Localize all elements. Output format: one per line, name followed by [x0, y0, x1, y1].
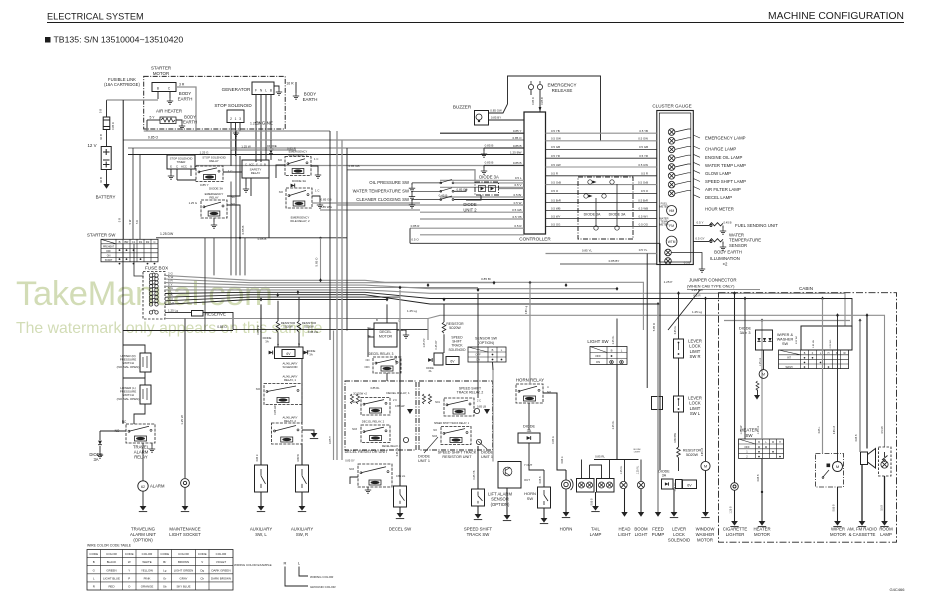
starter switch table	[101, 239, 158, 261]
feed pump wire	[657, 304, 659, 512]
svg-text:10 B: 10 B	[99, 177, 103, 183]
svg-text:OFF: OFF	[744, 445, 750, 449]
wire 0.85O low left	[123, 330, 233, 332]
lift alarm feed	[492, 370, 494, 462]
svg-text:SW R: SW R	[690, 354, 701, 359]
wire 0.5 WB controller to cluster	[546, 210, 657, 212]
svg-text:16 R: 16 R	[286, 82, 294, 86]
starter motor M1	[152, 83, 176, 92]
emergency idle relay 1	[285, 157, 311, 176]
body earth label right	[303, 92, 318, 103]
svg-text:0.85 RL: 0.85 RL	[595, 455, 605, 459]
svg-text:OUT: OUT	[524, 478, 530, 482]
fuse	[149, 291, 158, 295]
wire 0.85 GB across to right	[312, 202, 420, 204]
ground generator	[276, 89, 282, 95]
svg-text:(OPTION): (OPTION)	[133, 537, 153, 542]
joint	[687, 297, 689, 299]
wire 1.25Lg drop	[427, 319, 429, 341]
water temp meter WTM	[666, 236, 677, 247]
svg-text:ACC: ACC	[249, 164, 254, 167]
svg-text:CODE: CODE	[125, 552, 134, 556]
svg-text:1.25 B: 1.25 B	[250, 122, 261, 126]
wire air heater to earth	[176, 120, 182, 123]
wire 0.85 Y to controller	[440, 132, 524, 134]
diode 3A x3 box	[756, 330, 773, 350]
svg-text:MOTOR: MOTOR	[754, 532, 770, 537]
svg-text:0.5 L: 0.5 L	[515, 176, 522, 180]
fuse	[149, 280, 158, 284]
svg-text:COLOR: COLOR	[142, 552, 154, 556]
svg-text:NO: NO	[433, 429, 437, 432]
svg-text:CABIN: CABIN	[799, 286, 813, 291]
cluster lamp	[668, 173, 675, 180]
svg-text:Gr: Gr	[163, 576, 166, 580]
svg-text:0.85 LG: 0.85 LG	[396, 448, 399, 457]
ground body earth right	[293, 93, 299, 99]
svg-text:C: C	[153, 240, 155, 244]
horn sw down	[543, 508, 545, 518]
svg-text:H: H	[779, 441, 781, 444]
wire diode drop	[99, 431, 101, 440]
svg-text:IDLE RELAY, 2: IDLE RELAY, 2	[290, 219, 310, 223]
emergency relay label	[205, 192, 224, 200]
diode x3 c	[768, 338, 771, 341]
buzzer wire right	[489, 119, 525, 121]
drop wire x205	[204, 238, 206, 331]
jumper connector underline	[687, 289, 760, 291]
lever lock solenoid coil	[676, 480, 683, 489]
svg-text:LIGHT: LIGHT	[634, 452, 641, 454]
illumination lamp 2	[665, 258, 672, 265]
example line wiring color	[299, 567, 308, 577]
lamp internal wire	[675, 182, 691, 185]
svg-text:1.25 DW: 1.25 DW	[160, 232, 174, 236]
svg-text:0.5 GY: 0.5 GY	[695, 237, 704, 241]
svg-text:RELAY, 2: RELAY, 2	[284, 419, 296, 423]
emergency release wire down	[539, 90, 541, 112]
head light gnd arrow	[621, 512, 627, 517]
svg-text:NO3: NO3	[349, 468, 355, 471]
cluster gauge inner box	[659, 113, 691, 262]
svg-text:LAMP: LAMP	[590, 532, 602, 537]
fuse box feed	[134, 244, 144, 276]
diode 3A box horn	[518, 433, 540, 443]
decel relay4 left wire	[350, 477, 358, 484]
svg-text:F: F	[255, 89, 257, 93]
room lamp label	[879, 527, 893, 537]
svg-text:SW: SW	[745, 433, 753, 438]
svg-text:CLEANER CLOGGING SW: CLEANER CLOGGING SW	[356, 197, 410, 202]
diode down to horn sw	[529, 443, 544, 470]
svg-text:WINDOW: WINDOW	[696, 527, 716, 532]
wiper washer sw label	[777, 333, 794, 346]
svg-text:1.25 RL: 1.25 RL	[637, 465, 640, 474]
starter sw feeder 1	[132, 148, 134, 239]
svg-text:0.85 G: 0.85 G	[552, 436, 555, 444]
ground horn sw	[540, 518, 548, 524]
tail lamp drop 4	[589, 465, 591, 479]
lift alarm sensor	[498, 462, 521, 489]
decel relay 1	[361, 398, 390, 416]
svg-text:RELAY: RELAY	[209, 159, 218, 163]
switch ground	[409, 194, 415, 200]
switch contact	[412, 179, 454, 183]
tail lamp drop 3	[590, 465, 602, 479]
wire 5.85O vertical	[659, 243, 661, 470]
label leader	[693, 187, 700, 190]
diode arrows	[589, 181, 597, 198]
svg-text:LIGHT GREEN: LIGHT GREEN	[174, 568, 194, 572]
svg-text:TIMER: TIMER	[177, 160, 186, 164]
horn relay to horn wire	[543, 393, 566, 470]
switch ground	[409, 202, 415, 208]
tail lamp down	[595, 492, 597, 506]
ground auxiliary relay 2	[310, 433, 318, 439]
heater sw feed 2	[761, 321, 763, 440]
svg-text:WTM: WTM	[668, 240, 676, 244]
cluster gauge outer box	[657, 111, 694, 265]
svg-text:5.85 O: 5.85 O	[652, 322, 656, 331]
wire safety to idle relay 1	[276, 165, 285, 178]
hour meter HM	[667, 206, 677, 216]
diode 3A label aux right	[307, 349, 316, 356]
wire generator B to earth	[274, 86, 279, 89]
svg-text:0.5 WY: 0.5 WY	[551, 214, 561, 218]
svg-text:EMERGENCY LAMP: EMERGENCY LAMP	[705, 136, 746, 141]
tail lamp L1	[579, 482, 585, 488]
wire 1.25W across	[231, 149, 296, 151]
ground speed shift track sw	[474, 514, 482, 520]
svg-text:0.85 B: 0.85 B	[513, 144, 522, 148]
stop solenoid wire 3 down	[239, 123, 241, 132]
generator wire F down	[255, 95, 257, 163]
ground air heater	[179, 123, 185, 129]
washer pump	[759, 370, 768, 379]
diode box lever lock	[662, 479, 674, 489]
svg-text:6V: 6V	[286, 352, 291, 356]
svg-text:6V: 6V	[687, 484, 692, 488]
wire starter B down	[157, 92, 159, 100]
speed shift track relay upper	[444, 398, 474, 416]
boom light lamp	[637, 481, 644, 488]
svg-text:MOTOR: MOTOR	[830, 532, 846, 537]
resistor lever lock	[677, 447, 681, 458]
radio down	[861, 465, 863, 522]
wire resistor aux L feed	[277, 301, 279, 321]
ground room lamp	[880, 521, 888, 527]
safety relay	[242, 160, 269, 178]
svg-text:0.5 WY: 0.5 WY	[639, 214, 649, 218]
wire starter 3R down	[176, 87, 196, 131]
svg-text:DIODE 3A: DIODE 3A	[479, 175, 499, 180]
feed pump gnd arrow	[655, 512, 661, 517]
decel relay 2	[361, 425, 390, 443]
body earth label starter	[178, 91, 193, 101]
wire 0.5 GrB controller to cluster	[546, 184, 657, 186]
svg-text:0.85 Y: 0.85 Y	[513, 129, 522, 133]
light sw table	[590, 347, 627, 365]
speed shift track solenoid label	[448, 336, 466, 352]
wire fusible link to battery	[106, 130, 108, 147]
diode unit 1 label right	[481, 451, 493, 460]
svg-text:0.5 UW: 0.5 UW	[551, 163, 561, 167]
svg-text:NO1: NO1	[435, 401, 441, 404]
switch contact	[412, 196, 454, 200]
buzzer BZ1	[475, 111, 489, 126]
generator G1	[252, 82, 274, 95]
horn down	[565, 489, 567, 512]
svg-text:B: B	[270, 89, 272, 93]
svg-text:0.85 Y: 0.85 Y	[200, 183, 209, 187]
decel resistor unit enclosure	[345, 381, 416, 450]
screw symbol 2	[474, 408, 479, 413]
speaker symbol	[861, 449, 876, 469]
stop solenoid timer	[167, 155, 195, 169]
assembly wire 2	[616, 184, 618, 226]
svg-text:& CASSETTE: & CASSETTE	[849, 532, 876, 537]
ground cigarette lighter	[730, 521, 738, 527]
svg-text:0.85 B: 0.85 B	[485, 161, 494, 165]
ground emergency relay	[211, 222, 217, 228]
wire distribution bundle	[165, 289, 365, 291]
feed pump label	[652, 527, 665, 537]
switch contact	[412, 188, 454, 192]
svg-text:HOUR METER: HOUR METER	[705, 207, 734, 212]
svg-text:5Ω20W: 5Ω20W	[686, 453, 699, 457]
svg-text:0.5 GW: 0.5 GW	[551, 137, 561, 141]
fuel meter FM	[667, 221, 677, 231]
wire 0.5 GW controller to cluster	[546, 140, 657, 142]
svg-text:0.85 RY: 0.85 RY	[395, 355, 398, 364]
stub	[483, 148, 485, 151]
lamp internal wire	[675, 138, 691, 141]
wire water temp to diode unit	[454, 189, 466, 191]
boom light feed	[640, 460, 642, 482]
lever lock limit sw R contact	[678, 343, 680, 350]
svg-text:DIODE: DIODE	[481, 451, 493, 455]
wire emergency relay down	[227, 205, 240, 238]
lamp internal wire	[675, 190, 691, 193]
travel alarm relay right down	[151, 443, 153, 446]
resistor 5ohm20W ss label	[446, 322, 464, 330]
label leader	[693, 179, 700, 182]
svg-text:EMERGENCY: EMERGENCY	[547, 83, 576, 88]
svg-text:NO3: NO3	[365, 366, 371, 369]
decel sw feed top	[399, 290, 401, 331]
svg-text:2Ω120W ×2: 2Ω120W ×2	[353, 392, 367, 396]
safety relay ACC down	[250, 178, 252, 196]
diode 3A label aux left	[263, 336, 272, 343]
auxiliary relay 1	[264, 384, 302, 405]
tail lamp drop 1	[581, 460, 583, 479]
svg-text:RESISTOR UNIT: RESISTOR UNIT	[442, 455, 472, 459]
wiper motor square	[827, 464, 831, 468]
svg-text:ILLUMINATION: ILLUMINATION	[710, 256, 740, 261]
tail lamp label	[590, 527, 602, 537]
decel relay3 to unit	[386, 373, 388, 381]
svg-text:COLOR: COLOR	[178, 552, 190, 556]
diode 3A x3 label	[739, 327, 751, 336]
svg-text:BODY: BODY	[179, 91, 192, 96]
wire distribution bundle	[165, 300, 387, 305]
diode 3A aux left	[269, 351, 273, 355]
wire ground stub 1	[484, 147, 524, 149]
speed shift track relay 2 label	[457, 387, 484, 395]
svg-text:1.25 RL: 1.25 RL	[612, 335, 615, 344]
illumination lamp 1	[665, 249, 672, 256]
fuse	[149, 302, 158, 306]
svg-text:DIODE 3A: DIODE 3A	[584, 213, 601, 217]
svg-text:EARTH: EARTH	[178, 96, 193, 101]
svg-text:OIL PRESSURE SW: OIL PRESSURE SW	[369, 180, 410, 185]
svg-text:MAINTENANCE: MAINTENANCE	[169, 527, 200, 532]
diode 3A label top	[267, 144, 277, 152]
wire oil pressure to controller	[454, 182, 524, 184]
wire pressure switch feed	[122, 331, 124, 425]
decel unit ground arrow	[407, 409, 413, 414]
wire 0.5 Br to controller	[440, 196, 524, 198]
svg-text:DARK GREEN: DARK GREEN	[211, 568, 230, 572]
wire to reserve	[165, 311, 192, 313]
svg-text:OFF: OFF	[595, 354, 601, 358]
switch ground stub	[411, 191, 413, 193]
svg-text:BLACK: BLACK	[107, 560, 117, 564]
ground stop solenoid timer	[168, 173, 174, 179]
diode 3A top	[269, 150, 273, 154]
decel sw feed lower	[399, 464, 401, 486]
relay cluster drop wire	[239, 238, 241, 275]
svg-text:ROOM: ROOM	[879, 527, 893, 532]
lamp internal wire	[675, 129, 691, 132]
wire distribution bundle	[165, 292, 365, 293]
wire body earth drop right	[295, 82, 297, 93]
svg-text:0.5 GB: 0.5 GB	[551, 145, 560, 149]
svg-text:B: B	[376, 318, 378, 322]
svg-text:FUEL SENDING UNIT: FUEL SENDING UNIT	[735, 223, 778, 228]
diode 3A idle relays	[291, 184, 295, 188]
ground lever lock solenoid	[670, 512, 678, 518]
diode 3A label lever lock	[658, 470, 670, 478]
decel motor left drop	[367, 329, 369, 345]
svg-text:B: B	[611, 349, 613, 353]
svg-text:3 R: 3 R	[179, 83, 185, 87]
wire distribution bundle	[165, 279, 494, 283]
svg-text:R1: R1	[139, 240, 143, 244]
svg-text:COLOR: COLOR	[106, 552, 118, 556]
lamp internal wire	[675, 155, 691, 158]
svg-text:ENGINE OIL LAMP: ENGINE OIL LAMP	[705, 155, 742, 160]
diode 3A label travel	[89, 452, 102, 462]
alarm unit A1	[138, 481, 148, 491]
fuse	[149, 284, 158, 288]
tail lamp R1	[599, 482, 605, 488]
wire 0.5 O controller to cluster	[546, 192, 657, 194]
svg-text:RELAY: RELAY	[134, 455, 148, 460]
sensor sw option label	[475, 337, 498, 345]
wire distribution bundle	[165, 286, 478, 287]
radio column 1	[859, 321, 861, 453]
wire maintenance socket feed	[184, 319, 186, 479]
svg-text:SW, L: SW, L	[255, 532, 267, 537]
lever lock solenoid 6V box	[683, 480, 697, 489]
stop solenoid relay label	[202, 156, 226, 164]
svg-text:CIGARETTE: CIGARETTE	[723, 527, 748, 532]
sensor sw down	[492, 362, 495, 370]
svg-text:0.5 GB: 0.5 GB	[639, 145, 648, 149]
speed shift sw column lower	[477, 446, 479, 489]
svg-text:0.85 B: 0.85 B	[757, 474, 760, 481]
stop solenoid wire 1 down	[235, 123, 237, 157]
resistor label aux R	[302, 321, 316, 328]
reserve fuse box	[192, 311, 204, 317]
svg-text:0.85 R: 0.85 R	[411, 224, 421, 228]
svg-text:CODE: CODE	[198, 552, 207, 556]
washer pump arrow	[754, 395, 760, 400]
svg-text:STARTER SW: STARTER SW	[87, 233, 116, 238]
svg-text:WASHER: WASHER	[696, 532, 715, 537]
svg-text:AUXILIARY: AUXILIARY	[291, 527, 314, 532]
svg-text:DIODE 3A: DIODE 3A	[292, 179, 306, 183]
air heater resistor	[160, 117, 176, 124]
svg-text:0.85 Y: 0.85 Y	[328, 436, 332, 444]
svg-text:PREHEAT: PREHEAT	[103, 246, 115, 249]
horn feed	[565, 470, 567, 480]
cluster lamp	[668, 138, 675, 145]
ground travel alarm relay	[149, 446, 155, 452]
svg-text:0.85 WF: 0.85 WF	[796, 335, 798, 344]
svg-text:NO3: NO3	[352, 428, 358, 431]
svg-text:TB135: S/N 13510004~13510420: TB135: S/N 13510004~13510420	[54, 35, 184, 45]
generator wire L down	[265, 95, 267, 146]
timer C down	[176, 169, 178, 180]
room lamp lamp	[881, 461, 888, 468]
wire pressure sw to travel alarm relay	[134, 404, 145, 424]
svg-text:1.25 LW: 1.25 LW	[740, 425, 743, 434]
horn relay	[516, 384, 543, 403]
relay cluster drop wire	[244, 238, 246, 275]
fusible link label	[104, 77, 140, 87]
wire 0.5 UW controller to cluster	[546, 166, 657, 168]
svg-text:VIOLET: VIOLET	[216, 560, 227, 564]
svg-text:S: S	[260, 163, 262, 167]
label leader	[693, 135, 700, 138]
boom light label	[634, 527, 648, 537]
svg-text:BODY: BODY	[304, 92, 317, 97]
svg-text:C: C	[176, 165, 178, 169]
svg-text:WIRE COLOR CODE TABLE: WIRE COLOR CODE TABLE	[87, 544, 132, 548]
wire cleaner to controller	[454, 199, 524, 201]
svg-text:(16A CARTRIDGE): (16A CARTRIDGE)	[104, 82, 140, 87]
label leader	[693, 162, 700, 165]
svg-text:STARTER: STARTER	[151, 66, 171, 71]
diode to washer pump	[763, 350, 765, 370]
ground controller input 1	[481, 151, 487, 157]
ground decel relay4	[365, 487, 371, 493]
example line ground color	[285, 567, 308, 587]
label leader	[693, 146, 700, 149]
svg-text:3A: 3A	[93, 457, 98, 462]
ground diode travel alarm	[97, 452, 103, 458]
ground water temp sensor	[720, 244, 726, 250]
cluster lamp	[668, 181, 675, 188]
tail lamp top bus	[594, 459, 639, 461]
svg-text:SKY BLUE: SKY BLUE	[176, 585, 190, 589]
am fm radio cassette label	[847, 527, 877, 537]
wire fusible link top	[106, 100, 108, 117]
lamp internal wire	[675, 146, 691, 149]
svg-text:B: B	[157, 87, 159, 91]
